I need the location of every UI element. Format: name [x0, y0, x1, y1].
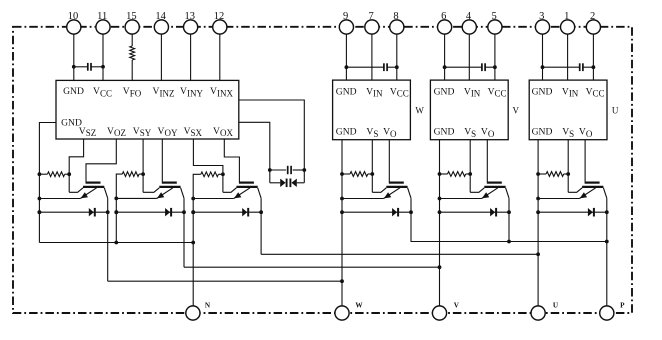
wire Q1 collector down: [107, 198, 109, 281]
svg-text:W: W: [415, 106, 424, 116]
transistor Q2 collector lead: [181, 188, 184, 198]
op-amp / low-side driver IC1 box: [56, 80, 239, 139]
svg-text:1: 1: [564, 11, 569, 22]
wire Q5 upper emitter: [470, 188, 484, 193]
junction dot D2 cathode: [182, 210, 186, 214]
junction dot Z rail lower emitter: [38, 197, 42, 201]
pin 7 terminal circle: [365, 20, 379, 34]
junction dot U rail at R7: [536, 172, 540, 176]
junction dot X rail lower emitter: [191, 197, 195, 201]
wire R6 to VS node: [466, 173, 471, 175]
wire pin 11 down to IC1: [102, 34, 104, 81]
wire IC1 right edge to node A (upper): [239, 100, 304, 183]
svg-text:VFO: VFO: [123, 86, 142, 98]
wire C1 (VCC-GND of IC1) cap row right: [91, 66, 103, 68]
wire Q6 upper emitter: [568, 188, 582, 193]
svg-text:VOZ: VOZ: [107, 126, 126, 138]
transistor Q2 gate bar: [162, 182, 177, 184]
wire Q6 lower emitter from U rail: [538, 198, 579, 200]
wire VSZ pin jog: [69, 139, 83, 192]
junction dot C1 (VCC-GND of IC1) left: [72, 65, 76, 69]
junction dot Y rail to N bus: [114, 241, 118, 245]
svg-text:10: 10: [68, 11, 79, 22]
transistor Q4 collector lead: [408, 188, 411, 198]
wire node V phase run: [184, 266, 440, 268]
resistor R4 (X sense): [201, 172, 219, 177]
wire Y rail to R3: [116, 174, 143, 242]
pin 3 terminal circle: [535, 20, 549, 34]
transistor Q3 emitter lead with arrow: [234, 188, 250, 199]
wire R1 to VFO pin: [131, 60, 133, 80]
wire C1 (VCC-GND of IC1) cap row left: [74, 66, 88, 68]
wire node U phase run: [261, 253, 538, 255]
wire C3 (VCC-GND of IC2) cap row left: [346, 66, 384, 68]
wire R7 to VS node: [564, 173, 569, 175]
resistor R6 (V sense): [448, 172, 466, 177]
wire diode row D2: [116, 211, 184, 213]
wire Q2 collector down: [183, 198, 185, 267]
transistor Q1 gate bar: [86, 182, 101, 184]
terminal N circle: [186, 306, 200, 320]
transistor Q5 gate bar: [487, 182, 502, 184]
terminal V circle: [432, 306, 446, 320]
junction dot R6-VS node: [468, 172, 472, 176]
junction dot Z rail diode row: [38, 210, 42, 214]
pin 2 terminal circle: [586, 20, 600, 34]
svg-text:5: 5: [491, 11, 496, 22]
wire VSX pin jog: [193, 139, 223, 192]
svg-text:14: 14: [155, 11, 166, 22]
wire Q4 upper emitter: [372, 188, 386, 193]
wire clamp cap row left: [270, 169, 286, 171]
transistor Q1 emitter lead with arrow: [80, 188, 96, 199]
svg-text:VINZ: VINZ: [153, 86, 175, 98]
svg-text:VIN: VIN: [562, 86, 579, 98]
junction dot W rail at R5: [340, 172, 344, 176]
wire Q4 collector down to P bus: [411, 198, 607, 241]
pin 4 terminal circle: [462, 20, 476, 34]
wire C5 (VCC-GND of IC4) cap row right: [583, 66, 594, 68]
junction dot C3 (VCC-GND of IC2) left: [345, 65, 349, 69]
wire Q5 collector down: [508, 198, 510, 241]
svg-text:GND: GND: [63, 86, 84, 97]
high-side driver IC3 box: [430, 80, 508, 140]
svg-text:VCC: VCC: [93, 86, 112, 98]
junction dot X rail to N bus: [191, 241, 195, 245]
svg-text:U: U: [612, 106, 619, 116]
svg-text:VINY: VINY: [180, 86, 203, 98]
wire node W phase run: [108, 280, 342, 282]
svg-text:VS: VS: [366, 127, 378, 139]
wire pin 5 down to driver IC: [494, 34, 496, 80]
junction dot V rail at R6: [438, 172, 442, 176]
resistor R2 (Z sense): [47, 172, 64, 177]
junction dot V phase join: [438, 265, 442, 269]
wire Q2 lower emitter from Y rail: [116, 197, 156, 199]
transistor Q1 collector lead: [104, 188, 107, 198]
junction dot node A: [302, 168, 306, 172]
wire Q2 upper emitter: [143, 188, 159, 193]
resistor R1 (VFO pull-up): [130, 46, 135, 60]
wire VOZ pin jog to Q1 gate: [86, 139, 116, 182]
capacitor C4 (VCC-GND of IC3): [481, 63, 483, 71]
svg-text:9: 9: [343, 11, 348, 22]
transistor Q2 channel bar: [159, 186, 180, 188]
svg-text:VOY: VOY: [158, 126, 178, 138]
transistor Q4 gate bar: [389, 182, 404, 184]
wire C3 (VCC-GND of IC2) cap row right: [387, 66, 397, 68]
wire VOX pin jog to Q3 gate: [224, 139, 239, 182]
wire VS U pin down: [567, 140, 569, 193]
svg-text:VCC: VCC: [586, 86, 605, 98]
svg-text:VSZ: VSZ: [79, 126, 96, 138]
svg-text:W: W: [355, 301, 363, 309]
wire diode row D4: [342, 211, 411, 213]
transistor Q4 emitter lead with arrow: [384, 188, 400, 199]
wire diode row D6: [538, 211, 607, 213]
pin 5 terminal circle: [488, 20, 502, 34]
wire VOY pin down to Q2 gate: [161, 139, 163, 182]
wire Q6 collector down to terminal P: [606, 198, 608, 306]
junction dot D6 anode: [536, 210, 540, 214]
transistor Q5 emitter lead with arrow: [482, 188, 498, 199]
wire Q3 upper emitter: [223, 188, 237, 193]
wire R5 to VS node: [368, 173, 373, 175]
pin 15 terminal circle: [125, 20, 139, 34]
junction dot Y rail diode row: [114, 210, 118, 214]
pin 6 terminal circle: [438, 20, 452, 34]
wire X rail to R4: [193, 174, 223, 306]
svg-text:U: U: [553, 301, 559, 309]
wire Q1 upper emitter: [69, 188, 83, 193]
wire Z rail to R2: [39, 173, 47, 175]
svg-text:VIN: VIN: [366, 86, 383, 98]
pin 10 terminal circle: [67, 20, 81, 34]
transistor Q6 gate bar: [585, 182, 600, 184]
junction dot X rail diode row: [191, 210, 195, 214]
pin 9 terminal circle: [339, 20, 353, 34]
transistor Q2 emitter lead with arrow: [157, 188, 173, 199]
junction dot D3 anode: [191, 210, 195, 214]
wire pin 1 down to driver IC: [567, 34, 569, 80]
wire U rail to R7: [538, 173, 546, 175]
wire node N bus: [39, 242, 193, 244]
svg-text:12: 12: [214, 11, 225, 22]
junction dot D5 cathode: [507, 210, 511, 214]
junction dot R3-VSY node: [141, 172, 145, 176]
wire R2 to VSZ node: [65, 173, 70, 175]
svg-text:GND: GND: [336, 86, 357, 97]
junction dot Q6 collector at P bus: [605, 240, 609, 244]
junction dot Y rail lower emitter: [114, 197, 118, 201]
dash-dot enclosure border of module: [13, 27, 632, 313]
wire Q5 lower emitter from V rail: [440, 198, 482, 200]
wire pin 15 to VFO with resistor R1: [131, 34, 133, 46]
junction dot C4 (VCC-GND of IC3) left: [443, 65, 447, 69]
junction dot C3 (VCC-GND of IC2) right: [395, 65, 399, 69]
capacitor C2 (clamp): [287, 166, 289, 174]
wire VS V pin down: [469, 140, 471, 193]
svg-text:7: 7: [368, 11, 373, 22]
wire C4 (VCC-GND of IC3) cap row right: [485, 66, 495, 68]
svg-text:V: V: [512, 106, 519, 116]
diode D3 (freewheel): [242, 208, 247, 216]
transistor Q3 channel bar: [236, 186, 257, 188]
pin 13 terminal circle: [184, 20, 198, 34]
svg-text:3: 3: [539, 11, 544, 22]
wire diode row D1: [39, 211, 107, 213]
junction dot U rail lower emitter: [536, 197, 540, 201]
wire IC1 GND jog to Z rail: [39, 123, 56, 243]
wire VO U pin down to Q6 gate: [584, 140, 586, 182]
wire VS W pin down: [371, 140, 373, 193]
svg-text:15: 15: [126, 11, 137, 22]
svg-text:GND: GND: [532, 127, 553, 138]
pin 14 terminal circle: [154, 20, 168, 34]
wire pin 6 down to driver IC: [444, 34, 446, 80]
junction dot D5 anode: [438, 210, 442, 214]
capacitor C3 (VCC-GND of IC2): [383, 63, 385, 71]
wire Q1 lower emitter from Z rail: [39, 198, 80, 200]
wire pin 12 down to IC1: [219, 34, 221, 81]
diode D6 (freewheel): [588, 208, 593, 216]
wire pin 7 down to driver IC: [371, 34, 373, 80]
wire U rail (driver GND) down: [537, 140, 539, 306]
junction dot D4 anode: [340, 210, 344, 214]
wire pin 10 down to IC1: [73, 34, 75, 81]
wire C5 (VCC-GND of IC4) cap row left: [543, 66, 580, 68]
junction dot W rail lower emitter: [340, 197, 344, 201]
resistor R5 (W sense): [350, 172, 368, 177]
wire clamp diode branch left: [270, 182, 280, 184]
svg-text:4: 4: [466, 11, 472, 22]
pin 8 terminal circle: [390, 20, 404, 34]
svg-text:VO: VO: [383, 127, 397, 139]
svg-text:VCC: VCC: [488, 86, 507, 98]
wire pin 8 down to driver IC: [396, 34, 398, 80]
junction dot R7-VS node: [566, 172, 570, 176]
wire Q4 lower emitter from W rail: [342, 198, 384, 200]
wire VO V pin down to Q5 gate: [486, 140, 488, 182]
svg-text:2: 2: [590, 11, 595, 22]
wire diode row D5: [440, 211, 510, 213]
wire W rail to R5: [342, 173, 350, 175]
junction dot R2-VSZ node: [67, 172, 71, 176]
diode D1 (freewheel): [89, 208, 94, 216]
svg-text:6: 6: [441, 11, 446, 22]
junction dot U phase join: [536, 252, 540, 256]
wire VO W pin down to Q4 gate: [388, 140, 390, 182]
svg-text:GND: GND: [434, 127, 455, 138]
pin 1 terminal circle: [561, 20, 575, 34]
transistor Q3 gate bar: [239, 182, 254, 184]
svg-text:VSY: VSY: [133, 126, 152, 138]
svg-text:GND: GND: [532, 86, 553, 97]
svg-text:VO: VO: [481, 127, 495, 139]
junction dot C1 (VCC-GND of IC1) right: [101, 65, 105, 69]
svg-text:VSX: VSX: [184, 126, 203, 138]
transistor Q4 channel bar: [386, 186, 407, 188]
wire W rail (driver GND) down: [341, 140, 343, 306]
pin 12 terminal circle: [213, 20, 227, 34]
junction dot D1 anode: [38, 210, 42, 214]
diode D2 (freewheel): [165, 208, 170, 216]
wire pin 13 down to IC1: [190, 34, 192, 81]
junction dot Z rail at R2: [38, 172, 42, 176]
svg-text:VS: VS: [464, 127, 476, 139]
high-side driver IC2 box: [333, 80, 411, 140]
diode D4 (freewheel): [392, 208, 397, 216]
svg-text:GND: GND: [434, 86, 455, 97]
capacitor C1 (VCC-GND of IC1): [87, 63, 89, 71]
svg-text:V: V: [454, 301, 460, 309]
junction dot C5 (VCC-GND of IC4) left: [541, 65, 545, 69]
wire clamp cap row right: [293, 169, 305, 171]
wire V rail to R6: [440, 173, 448, 175]
wire pin 4 down to driver IC: [468, 34, 470, 80]
terminal W circle: [335, 306, 349, 320]
junction dot C4 (VCC-GND of IC3) right: [493, 65, 497, 69]
resistor R3 (Y sense): [122, 172, 139, 177]
transistor Q5 collector lead: [506, 188, 509, 198]
svg-text:11: 11: [97, 11, 107, 22]
svg-text:VO: VO: [579, 127, 593, 139]
svg-text:VCC: VCC: [390, 86, 409, 98]
resistor R7 (U sense): [546, 172, 564, 177]
high-side driver IC4 box: [529, 80, 607, 140]
svg-text:VOX: VOX: [213, 126, 233, 138]
wire pin 9 down to driver IC: [345, 34, 347, 80]
wire Q3 lower emitter from X rail: [193, 198, 234, 200]
pin 11 terminal circle: [96, 20, 110, 34]
svg-text:GND: GND: [336, 127, 357, 138]
junction dot node B: [268, 168, 272, 172]
svg-text:VINX: VINX: [210, 86, 233, 98]
wire diode row D3: [193, 211, 261, 213]
wire IC1 right edge to node B (lower): [239, 122, 270, 183]
wire Q3 collector down: [260, 198, 262, 254]
svg-text:P: P: [620, 301, 625, 309]
diode D7 (clamp, pointing right): [280, 179, 285, 187]
svg-text:VS: VS: [562, 127, 574, 139]
junction dot D6 cathode: [605, 210, 609, 214]
junction dot W phase join: [340, 279, 344, 283]
wire pin 2 down to driver IC: [592, 34, 594, 80]
terminal U circle: [531, 306, 545, 320]
wire C4 (VCC-GND of IC3) cap row left: [445, 66, 482, 68]
junction dot D3 cathode: [259, 210, 263, 214]
svg-text:13: 13: [185, 11, 196, 22]
svg-text:VIN: VIN: [464, 86, 481, 98]
transistor Q1 channel bar: [83, 186, 104, 188]
transistor Q6 collector lead: [603, 188, 606, 198]
transistor Q6 emitter lead with arrow: [579, 188, 595, 199]
junction dot D2 anode: [114, 210, 118, 214]
transistor Q3 collector lead: [258, 188, 261, 198]
wire V rail (driver GND) down: [439, 140, 441, 306]
wire pin 14 down to IC1: [160, 34, 162, 81]
junction dot C5 (VCC-GND of IC4) right: [592, 65, 596, 69]
junction dot R4-VSX node: [221, 172, 225, 176]
junction dot D4 cathode: [409, 210, 413, 214]
capacitor C5 (VCC-GND of IC4): [579, 63, 581, 71]
terminal P circle: [600, 306, 614, 320]
transistor Q5 channel bar: [484, 186, 505, 188]
junction dot V rail lower emitter: [438, 197, 442, 201]
svg-text:8: 8: [393, 11, 398, 22]
transistor Q6 channel bar: [582, 186, 603, 188]
wire pin 3 down to driver IC: [542, 34, 544, 80]
junction dot Q5 collector to P bus: [507, 240, 511, 244]
junction dot R5-VS node: [370, 172, 374, 176]
diode D5 (freewheel): [490, 208, 495, 216]
diode D8 (clamp, pointing left): [291, 179, 296, 187]
junction dot D1 cathode: [106, 210, 110, 214]
wire clamp diode branch right: [297, 182, 305, 184]
svg-text:N: N: [205, 301, 211, 309]
wire VSY pin down: [142, 139, 144, 192]
